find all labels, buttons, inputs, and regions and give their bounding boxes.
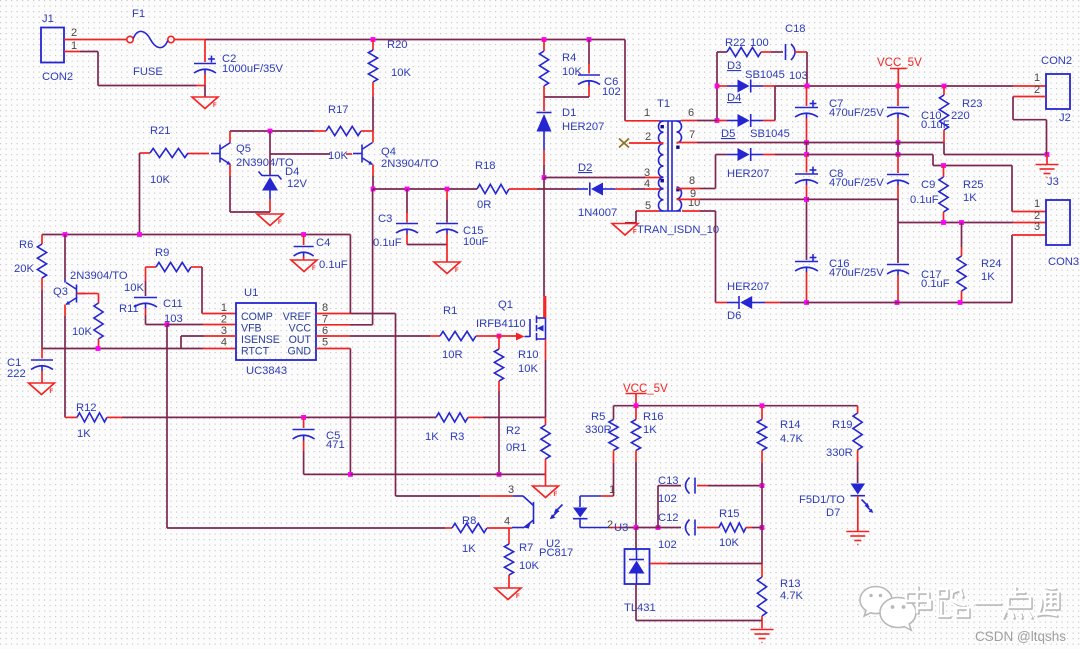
svg-text:F: F: [213, 103, 217, 109]
svg-text:3: 3: [508, 484, 514, 496]
svg-text:0.1uF: 0.1uF: [921, 278, 950, 290]
optocoupler U2 PC817: [496, 495, 513, 497]
svg-text:R12: R12: [76, 402, 97, 414]
svg-text:T1: T1: [657, 98, 670, 110]
svg-text:R19: R19: [832, 419, 853, 431]
wire D2 row to pin3: [544, 177, 664, 179]
transistor Q5: [188, 153, 209, 155]
wire row417 right: [483, 416, 546, 418]
svg-text:1: 1: [1034, 198, 1040, 210]
diode D2 1N4007: [577, 188, 588, 190]
svg-text:0.1uF: 0.1uF: [319, 259, 348, 271]
svg-text:F: F: [516, 594, 520, 600]
svg-text:CSDN @ltqshs: CSDN @ltqshs: [975, 629, 1066, 644]
svg-text:6: 6: [688, 107, 694, 119]
ground under C1: [29, 383, 55, 395]
junction D5 row 806: [804, 152, 809, 157]
svg-text:F: F: [50, 389, 54, 395]
resistor R17: [230, 130, 314, 132]
wire GND pin5: [316, 349, 350, 475]
svg-text:OUT: OUT: [289, 334, 312, 346]
svg-text:1: 1: [1034, 72, 1040, 84]
power VCC_5V top: [890, 68, 907, 70]
svg-text:Q5: Q5: [236, 143, 251, 155]
svg-text:D7: D7: [826, 507, 840, 519]
svg-text:GND: GND: [287, 346, 311, 358]
svg-text:102: 102: [658, 493, 677, 505]
transistor Q1 IRFB4110: [529, 319, 531, 337]
svg-text:C13: C13: [658, 475, 679, 487]
svg-text:C3: C3: [378, 213, 392, 225]
svg-text:R9: R9: [155, 247, 169, 259]
wire J1 pin1 down: [64, 52, 205, 86]
wire R12 row left: [65, 416, 77, 418]
svg-text:102: 102: [658, 539, 677, 551]
svg-text:220: 220: [951, 110, 970, 122]
wire J1 pin2 to fuse: [64, 39, 127, 41]
wire top rail: [205, 39, 625, 41]
wire pin9 rail: [677, 198, 807, 200]
svg-text:CON3: CON3: [1048, 256, 1079, 268]
wire pin2 opto: [608, 527, 636, 529]
connector J2: [1046, 74, 1070, 109]
resistor R6: [41, 235, 43, 245]
svg-text:R10: R10: [518, 349, 539, 361]
wire output left rail: [716, 52, 718, 121]
wire 806 link: [806, 143, 808, 155]
svg-text:C9: C9: [921, 179, 935, 191]
ground J3 earth: [1046, 155, 1048, 165]
wire pin10 down: [682, 211, 716, 303]
svg-text:D2: D2: [578, 162, 592, 174]
svg-text:R22: R22: [725, 37, 746, 49]
svg-text:C18: C18: [785, 23, 806, 35]
svg-text:4.7K: 4.7K: [780, 433, 804, 445]
wire mid rail2: [898, 222, 1046, 224]
svg-text:1N4007: 1N4007: [578, 207, 617, 219]
svg-text:PC817: PC817: [539, 547, 573, 559]
svg-text:1K: 1K: [462, 543, 476, 555]
wire VREF to PC817: [350, 314, 496, 497]
svg-text:2: 2: [645, 131, 651, 143]
svg-text:R20: R20: [387, 39, 408, 51]
svg-text:J3: J3: [1047, 176, 1059, 188]
svg-text:SB1045: SB1045: [745, 69, 785, 81]
junction C7 bottom: [804, 140, 809, 145]
svg-text:R4: R4: [562, 52, 576, 64]
resistor R24: [961, 223, 963, 248]
svg-text:1K: 1K: [425, 431, 439, 443]
svg-text:10K: 10K: [72, 326, 92, 338]
svg-text:FUSE: FUSE: [133, 66, 163, 78]
wire aux rail: [373, 188, 477, 190]
wire Q5 emitter loop: [230, 211, 270, 213]
svg-text:R13: R13: [780, 578, 801, 590]
svg-text:10K: 10K: [719, 537, 739, 549]
svg-text:R21: R21: [150, 125, 171, 137]
resistor R4: [543, 40, 545, 52]
junction C5 rail: [348, 472, 353, 477]
svg-text:10R: 10R: [442, 349, 463, 361]
junction R25 top: [941, 163, 946, 168]
svg-text:TRAN_ISDN_10: TRAN_ISDN_10: [637, 224, 719, 236]
resistor R1: [440, 331, 476, 340]
svg-text:F: F: [278, 220, 282, 226]
svg-text:R17: R17: [328, 104, 349, 116]
junction C15/R18: [445, 187, 450, 192]
resistor R19: [857, 406, 859, 413]
svg-text:D4: D4: [727, 92, 741, 104]
junction R15 right: [760, 525, 765, 530]
svg-text:8: 8: [689, 175, 695, 187]
wire pin8 up: [677, 155, 716, 189]
junction C13 left bot: [656, 525, 661, 530]
resistor R14: [761, 406, 763, 420]
gate arrow: [516, 333, 525, 341]
svg-text:D6: D6: [727, 310, 741, 322]
wire 898 link: [897, 143, 899, 155]
LED D7: [851, 484, 866, 495]
capacitor C3: [406, 189, 408, 213]
wire D4 up to plus rail: [774, 86, 776, 121]
connector J1: [41, 28, 64, 63]
junction gate node: [497, 334, 502, 339]
svg-text:U3: U3: [614, 522, 628, 534]
svg-text:R23: R23: [962, 98, 983, 110]
junction rail R21: [137, 232, 142, 237]
resistor R15: [706, 527, 719, 529]
wire VCC pin7: [316, 189, 373, 325]
wire TL431 bottom: [636, 620, 762, 622]
capacitor C12: [686, 520, 690, 536]
wire R18 to D2: [537, 188, 577, 190]
svg-text:330R: 330R: [826, 447, 853, 459]
LED of PC817: [579, 496, 581, 507]
capacitor C2: [204, 40, 206, 63]
wire row417 mid: [122, 416, 436, 418]
svg-text:C4: C4: [316, 237, 330, 249]
zener diode D4: [269, 131, 271, 175]
svg-text:D3: D3: [727, 60, 741, 72]
capacitor C15: [446, 189, 448, 200]
junction R16 top: [634, 403, 639, 408]
svg-text:D4: D4: [285, 166, 299, 178]
ground under D4: [257, 214, 283, 226]
svg-text:2: 2: [221, 314, 227, 326]
junction Q4 emitter rail: [371, 187, 376, 192]
svg-text:1000uF/35V: 1000uF/35V: [222, 63, 283, 75]
svg-text:R11: R11: [119, 303, 139, 315]
svg-text:R6: R6: [19, 239, 33, 251]
resistor R9: [146, 266, 157, 268]
svg-text:VCC_5V: VCC_5V: [623, 383, 668, 395]
wire FB vertical: [167, 325, 452, 529]
capacitor C18: [785, 44, 787, 60]
junction C17 bottom: [895, 300, 900, 305]
svg-text:R5: R5: [591, 411, 605, 423]
capacitor C5: [303, 417, 305, 428]
svg-text:R16: R16: [643, 411, 664, 423]
wire RTCT rail: [42, 348, 236, 350]
svg-text:10K: 10K: [150, 174, 170, 186]
svg-text:Q1: Q1: [498, 299, 513, 311]
resistor R11: [86, 293, 99, 295]
junction RTCT R11: [96, 346, 101, 351]
svg-text:0R: 0R: [477, 199, 491, 211]
svg-text:R3: R3: [450, 431, 464, 443]
svg-text:10K: 10K: [518, 363, 538, 375]
capacitor C8: [806, 155, 808, 173]
svg-text:Q4: Q4: [381, 146, 396, 158]
wire row 527: [636, 527, 681, 529]
svg-text:C11: C11: [163, 298, 183, 310]
wire drain vertical: [543, 178, 545, 319]
watermark title: [908, 588, 1060, 619]
fuse F1: [127, 36, 133, 42]
svg-text:J1: J1: [42, 13, 54, 25]
svg-text:0R1: 0R1: [506, 442, 527, 454]
svg-text:F: F: [312, 266, 316, 272]
transistor Q4: [361, 145, 363, 163]
wire gnd rail: [677, 143, 1048, 155]
resistor R20: [372, 40, 374, 51]
resistor R13: [757, 577, 766, 616]
ground under D7 earth: [846, 531, 869, 533]
svg-text:F: F: [455, 268, 459, 274]
svg-text:R25: R25: [963, 179, 984, 191]
svg-text:ISENSE: ISENSE: [241, 334, 280, 346]
junction VCC tap: [896, 84, 901, 89]
junction D4 left: [715, 118, 720, 123]
wire Q4 base: [270, 153, 352, 155]
svg-text:R7: R7: [519, 542, 533, 554]
junction R10 bottom: [497, 472, 502, 477]
wire VREF up: [349, 235, 351, 314]
capacitor C7: [806, 86, 808, 106]
junction R14 top: [760, 403, 765, 408]
svg-text:100: 100: [750, 37, 769, 49]
connector J3-CON3: [1046, 200, 1070, 245]
svg-text:SB1045: SB1045: [750, 128, 790, 140]
svg-text:R1: R1: [443, 305, 457, 317]
junction C8 bottom: [804, 197, 809, 202]
junction D3 left: [715, 84, 720, 89]
junction D1/D2/drain: [542, 175, 547, 180]
resistor R23: [943, 86, 945, 95]
svg-text:4: 4: [504, 516, 510, 528]
junction R25 bottom: [941, 220, 946, 225]
junction top rail R20: [371, 37, 376, 42]
svg-text:1: 1: [221, 302, 227, 314]
transistor Q3: [76, 285, 78, 303]
resistor R5: [613, 418, 615, 420]
wire rail 234.5: [42, 234, 350, 236]
svg-text:0.1uF: 0.1uF: [910, 194, 939, 206]
svg-text:8: 8: [322, 302, 328, 314]
junction C6 top: [587, 37, 592, 42]
capacitor C11: [145, 267, 147, 281]
svg-text:10K: 10K: [391, 67, 411, 79]
wire out2 rail: [807, 155, 1046, 212]
svg-text:D1: D1: [562, 107, 576, 119]
svg-text:HER207: HER207: [562, 121, 604, 133]
wire COMP: [202, 267, 236, 314]
junction C13 right: [760, 483, 765, 488]
capacitor C16: [806, 199, 808, 260]
svg-text:2: 2: [71, 27, 77, 39]
svg-text:UC3843: UC3843: [246, 365, 287, 377]
power VCC_5V bottom: [626, 393, 647, 395]
svg-text:VREF: VREF: [283, 311, 312, 323]
ground under C15: [434, 262, 460, 274]
svg-text:R8: R8: [462, 515, 476, 527]
svg-text:F1: F1: [132, 8, 145, 20]
svg-text:1: 1: [609, 484, 615, 496]
shunt U3 TL431: [635, 528, 637, 550]
svg-text:R24: R24: [981, 258, 1002, 270]
junction D3 out: [805, 84, 810, 89]
junction rail x65: [63, 232, 68, 237]
svg-text:2: 2: [1034, 84, 1040, 96]
junction R4 top: [542, 37, 547, 42]
svg-text:102: 102: [602, 86, 621, 98]
svg-text:R14: R14: [780, 419, 801, 431]
wire minus rail: [807, 235, 1047, 303]
svg-text:R2: R2: [506, 425, 520, 437]
svg-text:470uF/25V: 470uF/25V: [829, 107, 884, 119]
svg-text:2: 2: [607, 519, 613, 531]
junction C10 bottom: [896, 140, 901, 145]
svg-text:2N3904/TO: 2N3904/TO: [381, 158, 439, 170]
resistor R22: [717, 51, 727, 53]
capacitor C1: [41, 349, 43, 359]
svg-text:1: 1: [71, 40, 77, 52]
junction J3 node: [1045, 152, 1050, 157]
svg-text:222: 222: [7, 368, 26, 380]
junction 898 row155: [896, 152, 901, 157]
capacitor C10: [897, 86, 899, 106]
capacitor C9: [897, 155, 899, 174]
svg-text:2N3904/TO: 2N3904/TO: [70, 270, 128, 282]
svg-text:COMP: COMP: [241, 311, 273, 323]
svg-text:VCC: VCC: [289, 323, 312, 335]
svg-text:0.1uF: 0.1uF: [373, 237, 402, 249]
diode D6 HER207: [716, 302, 728, 304]
svg-text:10K: 10K: [124, 282, 144, 294]
wire pin1 feed: [625, 40, 659, 121]
wire x762 links: [761, 486, 763, 577]
svg-text:C12: C12: [658, 512, 679, 524]
svg-text:4.7K: 4.7K: [780, 590, 804, 602]
svg-text:Q3: Q3: [53, 286, 68, 298]
wire rail474: [350, 473, 545, 475]
svg-text:VFB: VFB: [241, 323, 262, 335]
resistor R3: [436, 413, 468, 422]
ground TRAN_ISDN: [612, 224, 638, 236]
svg-text:TL431: TL431: [624, 602, 656, 614]
diode D4 SB1045: [681, 120, 697, 122]
junction R23 top: [942, 84, 947, 89]
svg-text:IRFB4110: IRFB4110: [476, 318, 526, 330]
svg-text:470uF/25V: 470uF/25V: [829, 267, 884, 279]
junction C5 top: [301, 415, 306, 420]
svg-text:VCC_5V: VCC_5V: [877, 57, 922, 69]
diode D5 SB1045 row: [716, 154, 728, 156]
resistor R7: [508, 528, 510, 544]
svg-text:5: 5: [322, 337, 328, 349]
junction pin9 806: [804, 197, 809, 202]
wire TL431 ref: [650, 563, 762, 565]
svg-text:7: 7: [322, 314, 328, 326]
junction C16 bottom: [804, 300, 809, 305]
wire gate: [488, 335, 516, 337]
diode D1: [543, 97, 545, 111]
svg-text:D5: D5: [721, 128, 735, 140]
ground under C2: [192, 97, 218, 109]
resistor R25: [943, 166, 945, 178]
wire ISENSE: [181, 336, 236, 349]
svg-text:1K: 1K: [77, 428, 91, 440]
wire pin1 opto: [601, 463, 614, 496]
capacitor C6: [588, 40, 590, 65]
junction C3 top: [405, 187, 410, 192]
watermark logo: [860, 587, 916, 631]
junction U3 node: [634, 525, 639, 530]
svg-text:CON2: CON2: [42, 71, 73, 83]
svg-text:F: F: [554, 492, 558, 498]
ground under R2: [533, 486, 559, 498]
svg-text:12V: 12V: [287, 178, 307, 190]
resistor R2: [545, 417, 547, 425]
junction D4 top: [268, 129, 273, 134]
resistor R10: [498, 336, 500, 349]
diode D3 SB1045: [717, 85, 727, 87]
junction R24 top: [959, 220, 964, 225]
wire J2 pin2: [1013, 97, 1047, 155]
svg-text:4: 4: [221, 337, 227, 349]
resistor R18: [477, 184, 509, 193]
wire C18 down: [806, 52, 808, 86]
ground under R13 earth: [751, 629, 774, 631]
junction rail C4: [301, 232, 306, 237]
transformer T1: [659, 120, 681, 122]
svg-text:U1: U1: [244, 287, 258, 299]
wire vcc rail bottom: [614, 406, 858, 420]
svg-text:330R: 330R: [585, 424, 612, 436]
svg-text:HER207: HER207: [727, 281, 769, 293]
capacitor C17: [897, 223, 899, 264]
junction C7 top: [805, 84, 810, 89]
svg-text:20K: 20K: [14, 263, 34, 275]
resistor R12: [77, 413, 107, 422]
capacitor C13: [657, 486, 659, 528]
ground under R7: [495, 588, 521, 600]
svg-text:7: 7: [689, 129, 695, 141]
svg-text:R15: R15: [719, 508, 740, 520]
svg-text:R18: R18: [475, 160, 496, 172]
svg-text:4: 4: [644, 178, 650, 190]
svg-text:10K: 10K: [519, 560, 539, 572]
svg-text:10K: 10K: [328, 150, 348, 162]
svg-text:HER207: HER207: [727, 168, 769, 180]
capacitor C4: [303, 235, 305, 246]
wire mid rail: [807, 198, 899, 200]
svg-text:3: 3: [1034, 221, 1040, 233]
svg-text:F5D1/TO: F5D1/TO: [799, 494, 845, 506]
svg-text:RTCT: RTCT: [241, 346, 270, 358]
wire fuse to C2 node: [174, 39, 205, 41]
resistor R8: [452, 523, 487, 532]
